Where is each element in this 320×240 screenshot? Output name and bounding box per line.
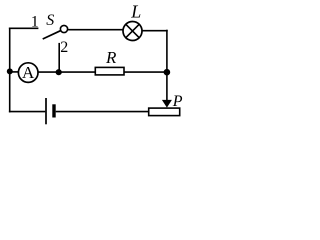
junction dot left	[7, 68, 13, 74]
wire right rail upper	[166, 30, 168, 73]
junction dot node 2	[56, 69, 62, 75]
wire ammeter to resistor	[38, 71, 96, 73]
battery long plate	[45, 98, 47, 124]
wire right rail lower	[166, 72, 168, 101]
switch S blade	[43, 31, 61, 39]
resistor R body	[95, 67, 124, 75]
lamp L	[123, 22, 142, 41]
wire resistor to right junction	[124, 71, 167, 73]
wire bottom-left to battery	[9, 111, 45, 113]
ammeter A	[18, 63, 38, 83]
svg-text:S: S	[46, 12, 54, 29]
potentiometer P body	[149, 108, 180, 116]
battery short thick plate	[52, 104, 55, 117]
wire left dot to ammeter	[9, 71, 19, 73]
potentiometer wiper arrow	[162, 100, 172, 108]
svg-text:L: L	[130, 1, 141, 21]
svg-text:2: 2	[60, 39, 68, 56]
svg-text:P: P	[172, 93, 183, 110]
junction dot right	[164, 69, 171, 76]
wire contact 2 vertical	[58, 43, 60, 71]
wire lamp to top-right corner	[142, 30, 168, 32]
wire switch to lamp	[68, 29, 123, 31]
svg-text:1: 1	[31, 13, 39, 30]
switch S pivot circle	[60, 25, 67, 32]
svg-text:R: R	[105, 48, 117, 67]
svg-text:A: A	[22, 63, 35, 82]
wire contact 1 (top-left horizontal)	[9, 27, 39, 29]
wire left rail	[9, 28, 11, 113]
wire battery to potentiometer	[56, 111, 149, 113]
